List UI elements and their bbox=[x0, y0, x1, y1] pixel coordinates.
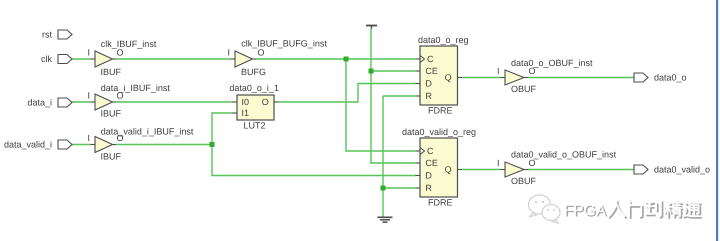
svg-text:data0_o_reg: data0_o_reg bbox=[418, 35, 469, 45]
pin stub BUFG in bbox=[231, 58, 236, 60]
svg-text:IBUF: IBUF bbox=[101, 67, 122, 77]
junction at ground / FDRE2 R bbox=[381, 186, 386, 191]
FDRE2 clock wedge bbox=[420, 148, 425, 155]
port clk bbox=[58, 55, 72, 64]
wire data_i_IBUF to LUT2 I0 bbox=[116, 101, 232, 103]
svg-text:Q: Q bbox=[445, 73, 452, 83]
wire clk branch down to FDRE2 C bbox=[346, 59, 416, 151]
svg-text:D: D bbox=[425, 79, 432, 89]
svg-text:R: R bbox=[425, 183, 432, 193]
pin stub FDRE1 C bbox=[416, 58, 421, 60]
svg-text:data_valid_i_IBUF_inst: data_valid_i_IBUF_inst bbox=[101, 126, 194, 136]
wire VCC branch to FDRE1 CE bbox=[371, 70, 416, 72]
svg-text:I: I bbox=[88, 133, 91, 143]
svg-text:BUFG: BUFG bbox=[241, 67, 266, 77]
svg-text:C: C bbox=[427, 146, 434, 156]
svg-text:I: I bbox=[228, 48, 231, 58]
svg-text:CE: CE bbox=[425, 66, 438, 76]
port data0_valid_o bbox=[634, 165, 648, 174]
pin stub OBUF1 out bbox=[524, 77, 529, 79]
pin stub FDRE2 R bbox=[416, 187, 421, 189]
wire ground branch to FDRE2 R bbox=[383, 187, 416, 189]
port rst bbox=[58, 30, 72, 39]
power VCC symbol bbox=[366, 26, 377, 29]
LUT2 data0_o_i_1 bbox=[237, 95, 274, 120]
svg-text:O: O bbox=[529, 66, 536, 76]
svg-text:FDRE: FDRE bbox=[428, 197, 453, 207]
svg-text:clk_IBUF_inst: clk_IBUF_inst bbox=[101, 39, 157, 49]
svg-text:FDRE: FDRE bbox=[428, 105, 453, 115]
pin stub LUT2 O bbox=[274, 101, 279, 103]
svg-text:I0: I0 bbox=[242, 97, 250, 107]
buffer BUFG clk_IBUF_BUFG_inst bbox=[235, 51, 253, 67]
pin stub BUFG out bbox=[252, 58, 257, 60]
svg-text:data0_o_i_1: data0_o_i_1 bbox=[229, 83, 279, 93]
wire OBUF1 to data0_o port bbox=[529, 77, 635, 79]
svg-text:data_valid_i: data_valid_i bbox=[4, 140, 52, 150]
FDRE data0_valid_o_reg bbox=[420, 138, 458, 197]
svg-text:I: I bbox=[497, 158, 500, 168]
wire FDRE2 Q to OBUF bbox=[462, 169, 500, 171]
port data0_o bbox=[634, 73, 648, 82]
svg-text:O: O bbox=[117, 48, 124, 58]
FDRE data0_o_reg bbox=[420, 46, 458, 105]
wire OBUF2 to data0_valid_o port bbox=[529, 169, 635, 171]
svg-text:O: O bbox=[529, 158, 536, 168]
blue right border bbox=[716, 0, 718, 241]
buffer IBUF clk_IBUF_inst bbox=[95, 51, 113, 67]
pin stub FDRE2 CE bbox=[416, 162, 421, 164]
pin stub IBUF3 in bbox=[91, 144, 96, 146]
svg-text:O: O bbox=[262, 97, 269, 107]
pin stub FDRE1 D bbox=[416, 83, 421, 85]
wire data_valid_i_IBUF to junction bbox=[116, 144, 212, 146]
svg-text:OBUF: OBUF bbox=[511, 176, 537, 186]
wire FDRE1 Q to OBUF bbox=[462, 77, 500, 79]
svg-text:D: D bbox=[425, 171, 432, 181]
pin stub FDRE1 CE bbox=[416, 70, 421, 72]
svg-text:I: I bbox=[88, 48, 91, 58]
pin stub IBUF2 out bbox=[112, 101, 117, 103]
svg-text:Q: Q bbox=[445, 165, 452, 175]
wire junction up to LUT2 I1 bbox=[212, 113, 232, 145]
svg-text:clk: clk bbox=[41, 54, 52, 64]
ground symbol bbox=[378, 217, 393, 222]
svg-text:I1: I1 bbox=[242, 108, 250, 118]
junction at VCC / FDRE1 CE bbox=[369, 69, 374, 74]
pin stub IBUF3 out bbox=[112, 144, 117, 146]
svg-text:OBUF: OBUF bbox=[511, 84, 537, 94]
wire LUT2 O to FDRE1 D bbox=[279, 84, 416, 103]
port data_i bbox=[58, 98, 72, 107]
svg-text:R: R bbox=[425, 91, 432, 101]
pin stub FDRE2 C bbox=[416, 150, 421, 152]
svg-text:data0_valid_o_reg: data0_valid_o_reg bbox=[402, 127, 476, 137]
pin stub FDRE1 Q bbox=[458, 77, 463, 79]
pin stub FDRE2 Q bbox=[458, 169, 463, 171]
pin stub IBUF2 in bbox=[91, 101, 96, 103]
pin stub IBUF1 out bbox=[112, 58, 117, 60]
svg-text:O: O bbox=[117, 133, 124, 143]
svg-text:clk_IBUF_BUFG_inst: clk_IBUF_BUFG_inst bbox=[241, 39, 327, 49]
FDRE1 clock wedge bbox=[420, 56, 425, 63]
wire data_i port to IBUF bbox=[72, 101, 91, 103]
pin stub OBUF2 out bbox=[524, 169, 529, 171]
buffer OBUF data0_valid_o_OBUF_inst bbox=[505, 162, 524, 177]
wire junction down to FDRE2 D bbox=[212, 145, 416, 176]
svg-text:I: I bbox=[88, 91, 91, 101]
svg-text:data0_o_OBUF_inst: data0_o_OBUF_inst bbox=[511, 58, 593, 68]
wire clk_IBUF_BUFG to FDRE1 C bbox=[257, 58, 416, 60]
wire clk port to IBUF bbox=[72, 58, 91, 60]
svg-text:rst: rst bbox=[42, 30, 52, 40]
svg-text:O: O bbox=[117, 91, 124, 101]
pin stub IBUF1 in bbox=[91, 58, 96, 60]
junction at clk branch bbox=[344, 57, 349, 62]
svg-text:LUT2: LUT2 bbox=[244, 121, 266, 131]
buffer OBUF data0_o_OBUF_inst bbox=[505, 70, 524, 85]
port data_valid_i bbox=[58, 140, 72, 149]
pin stub LUT2 I0 bbox=[232, 101, 237, 103]
pin stub FDRE2 D bbox=[416, 175, 421, 177]
wire clk_IBUF to BUFG bbox=[116, 58, 231, 60]
svg-text:data0_valid_o_OBUF_inst: data0_valid_o_OBUF_inst bbox=[511, 150, 617, 160]
watermark logo chat bubbles bbox=[529, 195, 561, 223]
svg-text:C: C bbox=[427, 54, 434, 64]
svg-text:data0_o: data0_o bbox=[654, 73, 687, 83]
pin stub OBUF2 in bbox=[500, 169, 505, 171]
svg-text:I: I bbox=[497, 66, 500, 76]
svg-text:IBUF: IBUF bbox=[101, 152, 122, 162]
svg-text:data0_valid_o: data0_valid_o bbox=[654, 165, 710, 175]
wire VCC vertical to CE pins bbox=[371, 29, 416, 164]
buffer IBUF data_valid_i_IBUF_inst bbox=[95, 137, 113, 153]
wire ground vertical to R pins bbox=[383, 96, 416, 217]
svg-text:O: O bbox=[258, 48, 265, 58]
svg-text:data_i: data_i bbox=[27, 98, 52, 108]
pin stub FDRE1 R bbox=[416, 95, 421, 97]
wire data_valid_i port to IBUF bbox=[72, 144, 91, 146]
svg-text:data_i_IBUF_inst: data_i_IBUF_inst bbox=[101, 83, 171, 93]
pin stub OBUF1 in bbox=[500, 77, 505, 79]
pin stub LUT2 I1 bbox=[232, 112, 237, 114]
buffer IBUF data_i_IBUF_inst bbox=[95, 94, 113, 110]
junction at data_valid_i branch bbox=[210, 142, 215, 147]
svg-text:IBUF: IBUF bbox=[101, 109, 122, 119]
svg-text:CE: CE bbox=[425, 158, 438, 168]
